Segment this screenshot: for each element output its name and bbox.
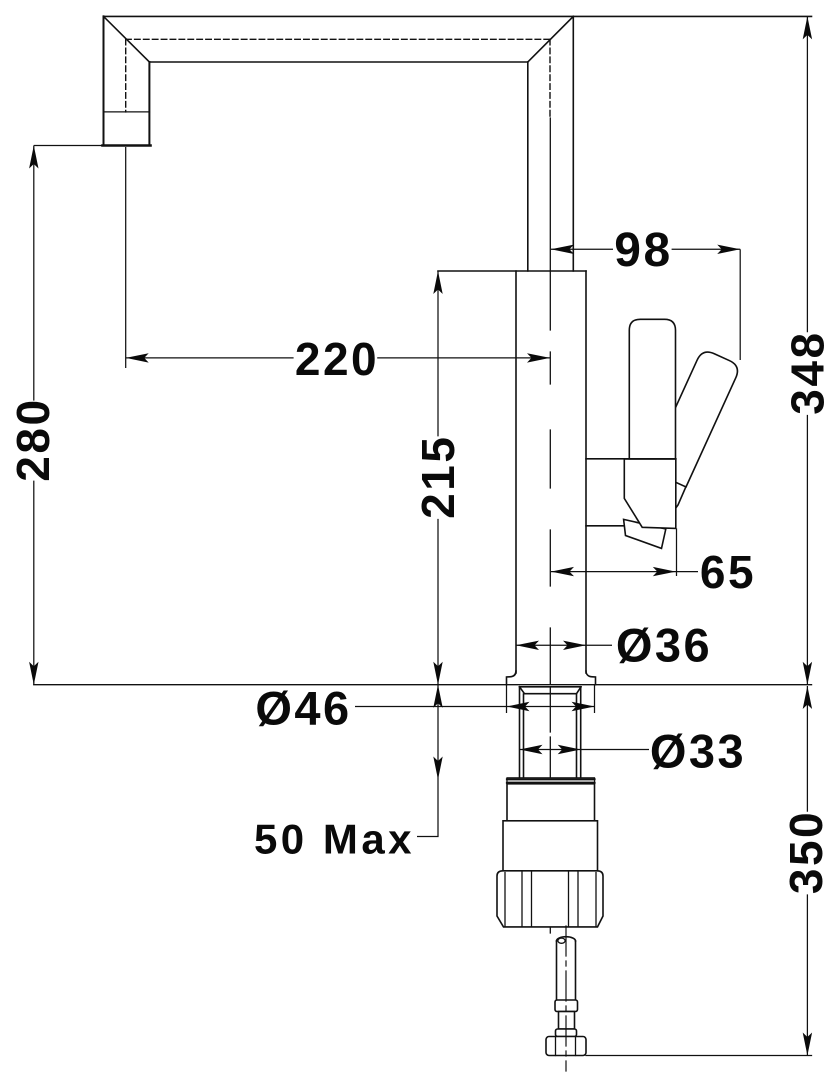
body top edge + 215 extension line — [438, 270, 586, 272]
cartridge top step line — [586, 458, 676, 460]
riser tube right edge — [572, 16, 574, 271]
threaded stud cap — [557, 937, 576, 941]
dim 98 right extension — [739, 249, 741, 360]
arrow 65 left — [551, 567, 574, 576]
base flange left step — [507, 671, 517, 685]
stud collar upper — [555, 1000, 578, 1012]
arrow Ø33 right — [558, 745, 581, 754]
mounting cylinder upper — [507, 784, 595, 821]
bottom extension line — [586, 1055, 812, 1057]
dim 98 line — [551, 248, 740, 250]
arrow 98 left — [551, 245, 574, 254]
knurl ridges — [505, 871, 596, 927]
dim 350 line — [806, 686, 808, 1056]
stud center line — [565, 926, 567, 1071]
arrow 65 right — [653, 567, 676, 576]
arrow Ø36 left — [516, 641, 539, 650]
arrow 280 bottom (down) — [29, 662, 38, 685]
arrow 350 top (up) — [803, 686, 812, 709]
handle lever tilted lower tail — [676, 487, 686, 509]
aerator bottom face — [103, 144, 151, 147]
threaded stud cap detail — [558, 938, 565, 943]
dim Ø36 line — [516, 644, 612, 646]
arrow 50max top (up) — [433, 685, 442, 708]
dim 65 line — [551, 571, 698, 573]
knurled locking nut — [497, 871, 603, 927]
cartridge bottom step line — [586, 525, 624, 527]
spout inner left edge — [148, 62, 150, 146]
hex nut facet lines — [556, 1037, 576, 1056]
arrow 220 left — [126, 353, 149, 362]
arrow Ø46 right — [572, 702, 595, 711]
svg-text:220: 220 — [295, 333, 379, 385]
body right edge — [585, 271, 587, 673]
handle base tilted collar — [624, 519, 666, 548]
stud collar lower — [556, 1029, 577, 1037]
arrow 350 bottom (down) — [803, 1033, 812, 1056]
mounting cylinder lower — [503, 821, 598, 871]
dim 220 left extension — [125, 147, 127, 368]
spout tube bottom edge — [149, 61, 527, 63]
dim 280 top extension — [34, 145, 102, 147]
spout right bevel — [528, 16, 574, 62]
dim 220 line — [126, 357, 550, 359]
dim 215 line — [437, 271, 439, 685]
aerator top line — [104, 111, 150, 113]
svg-text:65: 65 — [700, 546, 756, 598]
arrow Ø33 left — [520, 745, 543, 754]
body left edge — [515, 271, 517, 673]
hidden bore dashed horizontal — [126, 38, 550, 40]
arrow 220 right — [527, 353, 550, 362]
spout outlet left edge — [103, 16, 105, 145]
arrow 348 bottom (down) — [803, 662, 812, 685]
arrow 215 bottom (down) — [433, 662, 442, 685]
dim Ø33 line — [520, 749, 650, 751]
svg-text:Ø46: Ø46 — [255, 682, 351, 735]
arrow 215 top (up) — [433, 271, 442, 294]
svg-text:Ø36: Ø36 — [616, 619, 712, 672]
wire: spout top edge + 348 extension line — [104, 15, 812, 17]
svg-text:Ø33: Ø33 — [650, 725, 746, 778]
handle lever tilted (shown rotated) — [647, 348, 741, 487]
svg-text:350: 350 — [780, 810, 832, 894]
dim Ø46 left extension — [506, 685, 508, 713]
arrow 50max bottom (down) — [433, 757, 442, 780]
spout left bevel — [104, 16, 150, 62]
dim 348 line — [806, 16, 808, 684]
riser tube left edge — [527, 62, 529, 271]
handle lever upright — [629, 319, 675, 459]
svg-text:215: 215 — [412, 435, 464, 519]
countertop deck line — [34, 684, 812, 686]
dim 50 Max line and leader — [417, 685, 438, 837]
stud mid section — [559, 1012, 575, 1030]
dim Ø46 right extension — [594, 685, 596, 713]
arrow 348 top (up) — [803, 16, 812, 39]
cartridge housing — [624, 459, 676, 529]
arrow Ø36 right — [563, 641, 586, 650]
under-deck seal trapezoid — [520, 687, 582, 694]
gasket washer band — [507, 778, 595, 784]
hex nut — [546, 1037, 586, 1056]
threaded stud rod — [557, 941, 576, 1000]
threaded shank outer walls — [520, 687, 581, 778]
dim 280 line — [33, 146, 35, 685]
hidden bore dashed vertical at outlet — [125, 39, 127, 112]
arrow 98 right — [717, 245, 740, 254]
svg-text:348: 348 — [782, 330, 834, 414]
hidden bore dashed vertical — [549, 39, 551, 118]
threaded shank inner walls — [524, 694, 577, 778]
svg-text:98: 98 — [614, 224, 672, 277]
base flange right step — [586, 671, 596, 685]
svg-text:280: 280 — [7, 397, 59, 481]
center line of faucet body — [549, 118, 551, 933]
arrow 280 top (up) — [29, 146, 38, 169]
svg-text:50 Max: 50 Max — [254, 816, 415, 863]
dim Ø46 line — [355, 706, 595, 708]
dim 65 right extension — [676, 528, 678, 576]
arrow Ø46 left — [507, 702, 530, 711]
